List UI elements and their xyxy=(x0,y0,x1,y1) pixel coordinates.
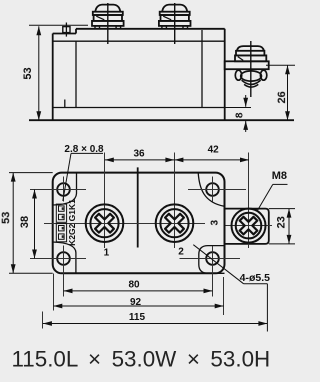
corner boss top-left xyxy=(53,173,77,205)
svg-text:8: 8 xyxy=(234,112,245,118)
terminal screw 2 (side view) xyxy=(159,3,191,44)
mounting hole top-left xyxy=(30,177,86,202)
corner boss bottom-left xyxy=(53,242,76,273)
dimension 53 (side view height) xyxy=(22,25,88,120)
mounting hole top-right xyxy=(188,177,246,202)
plan view body outline xyxy=(53,173,225,274)
dimension 42 xyxy=(174,144,249,162)
terminal 2 screw (plan) xyxy=(156,153,194,249)
dimension 26 (right side) xyxy=(266,65,295,120)
dimension 53 (plan) xyxy=(0,173,53,274)
label M8 with leader xyxy=(258,170,288,210)
svg-text:K2G2 G1K1: K2G2 G1K1 xyxy=(67,199,77,246)
terminal screw 1 (side view) xyxy=(92,3,124,44)
dimension 8 (baseplate) xyxy=(234,95,248,132)
mounting hole bottom-left xyxy=(30,246,86,297)
side view module body outline xyxy=(29,29,294,120)
dimension 115 xyxy=(43,312,268,329)
M8 side terminal (side view) xyxy=(225,41,269,97)
svg-text:53: 53 xyxy=(0,212,12,224)
corner boss bottom-right xyxy=(199,246,225,274)
gate pin (side view) xyxy=(63,23,70,37)
svg-text:42: 42 xyxy=(208,144,220,155)
svg-text:115: 115 xyxy=(129,312,146,323)
corner boss top-right xyxy=(198,173,224,207)
section divider line xyxy=(137,167,139,247)
svg-text:M8: M8 xyxy=(272,170,287,182)
svg-text:26: 26 xyxy=(276,91,288,103)
svg-text:36: 36 xyxy=(133,148,145,159)
dimension 80 xyxy=(64,280,213,294)
svg-text:1: 1 xyxy=(104,248,110,259)
label 2.8x0.8 with leader xyxy=(63,144,104,201)
dimension 23 xyxy=(269,209,295,244)
mounting hole bottom-right xyxy=(180,246,241,297)
svg-text:38: 38 xyxy=(19,216,31,228)
dimension 38 xyxy=(19,190,37,259)
svg-text:80: 80 xyxy=(128,280,140,291)
svg-text:92: 92 xyxy=(130,297,142,308)
terminal 3 screw (plan) xyxy=(232,153,266,249)
dimension 92 xyxy=(53,274,223,316)
svg-text:23: 23 xyxy=(275,216,287,228)
svg-text:4-ø5.5: 4-ø5.5 xyxy=(240,272,271,284)
svg-text:53: 53 xyxy=(22,67,34,79)
svg-text:3: 3 xyxy=(210,219,221,225)
horizontal centerline terminals xyxy=(44,223,205,225)
svg-text:2: 2 xyxy=(178,247,184,258)
dimension 36 xyxy=(105,148,175,162)
svg-text:115.0L × 53.0W × 53.0H: 115.0L × 53.0W × 53.0H xyxy=(12,347,271,372)
terminal 3 tab (plan) xyxy=(225,209,269,244)
label 4-diam5.5 with leader xyxy=(193,245,270,332)
connector block with pins xyxy=(56,204,66,242)
terminal 1 screw (plan) xyxy=(86,153,124,249)
